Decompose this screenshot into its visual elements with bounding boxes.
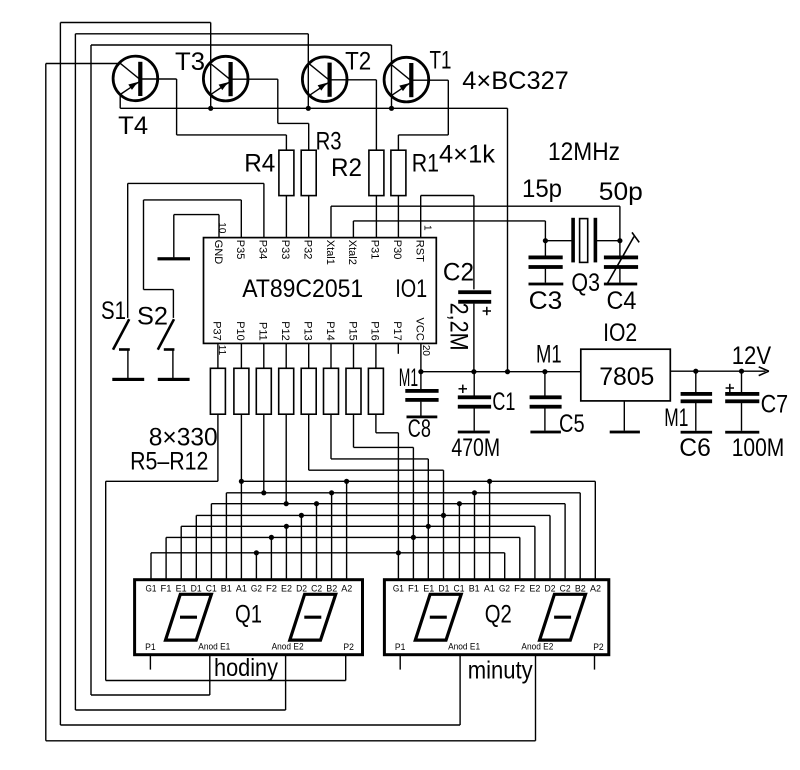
svg-text:11: 11	[216, 345, 227, 356]
svg-text:Q2: Q2	[485, 601, 512, 629]
svg-text:P2: P2	[343, 642, 354, 653]
svg-text:P1: P1	[395, 642, 406, 653]
svg-text:F1: F1	[408, 584, 419, 595]
svg-text:F2: F2	[514, 584, 525, 595]
svg-text:7805: 7805	[599, 363, 654, 391]
svg-text:T4: T4	[118, 112, 148, 140]
svg-text:4×1k: 4×1k	[439, 141, 495, 169]
svg-text:P32: P32	[302, 240, 314, 260]
svg-text:P31: P31	[369, 240, 381, 260]
svg-text:D2: D2	[296, 584, 307, 595]
svg-text:P1: P1	[145, 642, 156, 653]
svg-text:C2: C2	[311, 584, 322, 595]
svg-text:F2: F2	[266, 584, 277, 595]
svg-text:Anod E2: Anod E2	[272, 642, 304, 653]
svg-text:C7: C7	[761, 391, 789, 419]
svg-text:12MHz: 12MHz	[548, 138, 620, 166]
svg-text:P10: P10	[234, 321, 246, 341]
svg-text:M1: M1	[664, 404, 688, 432]
svg-text:P34: P34	[257, 240, 269, 260]
svg-text:P15: P15	[346, 321, 358, 341]
svg-text:P12: P12	[279, 321, 291, 341]
svg-text:hodiny: hodiny	[214, 654, 278, 682]
svg-text:E1: E1	[176, 584, 187, 595]
svg-text:Anod E1: Anod E1	[448, 642, 480, 653]
svg-text:T2: T2	[345, 48, 371, 76]
svg-text:P37: P37	[211, 321, 223, 341]
svg-text:Xtal2: Xtal2	[346, 240, 358, 265]
svg-text:C2: C2	[560, 584, 571, 595]
svg-text:R3: R3	[316, 127, 342, 155]
svg-text:F1: F1	[161, 584, 172, 595]
svg-text:S1: S1	[101, 297, 126, 325]
svg-text:50p: 50p	[599, 178, 643, 206]
svg-text:C8: C8	[408, 415, 431, 443]
svg-text:P14: P14	[324, 321, 336, 341]
svg-text:C5: C5	[559, 410, 585, 438]
svg-text:1: 1	[421, 225, 432, 231]
svg-text:R1: R1	[412, 149, 439, 177]
svg-text:20: 20	[420, 345, 431, 357]
svg-text:B2: B2	[575, 584, 586, 595]
svg-text:P13: P13	[302, 321, 314, 341]
svg-text:G2: G2	[251, 584, 262, 595]
svg-text:E2: E2	[529, 584, 540, 595]
svg-text:D2: D2	[545, 584, 556, 595]
svg-text:P30: P30	[391, 240, 403, 260]
svg-text:C1: C1	[492, 388, 515, 416]
svg-text:C2: C2	[443, 259, 474, 287]
svg-text:470M: 470M	[451, 434, 500, 462]
svg-text:Anod E1: Anod E1	[198, 642, 230, 653]
svg-text:G1: G1	[393, 584, 404, 595]
svg-text:T1: T1	[430, 47, 452, 75]
svg-text:RST: RST	[414, 240, 426, 262]
svg-text:C1: C1	[454, 584, 465, 595]
svg-text:minuty: minuty	[468, 657, 533, 685]
svg-text:S2: S2	[137, 303, 168, 331]
svg-text:G2: G2	[499, 584, 510, 595]
svg-text:C3: C3	[529, 287, 563, 315]
svg-text:P11: P11	[257, 322, 269, 341]
svg-text:E1: E1	[423, 584, 434, 595]
svg-text:R5–R12: R5–R12	[130, 448, 208, 476]
svg-text:100M: 100M	[732, 434, 785, 462]
svg-text:A2: A2	[590, 584, 601, 595]
svg-text:IO2: IO2	[603, 319, 637, 347]
svg-text:P16: P16	[369, 321, 381, 341]
svg-text:D1: D1	[191, 584, 202, 595]
svg-text:GND: GND	[212, 240, 224, 264]
svg-text:M1: M1	[399, 364, 418, 392]
svg-text:12V: 12V	[732, 342, 772, 370]
svg-text:P35: P35	[234, 240, 246, 260]
svg-text:B1: B1	[221, 584, 232, 595]
svg-text:B1: B1	[469, 584, 480, 595]
svg-text:Anod E2: Anod E2	[521, 642, 553, 653]
svg-text:C1: C1	[206, 584, 217, 595]
svg-text:C4: C4	[607, 287, 637, 315]
svg-text:Xtal1: Xtal1	[324, 240, 336, 265]
svg-text:C6: C6	[679, 434, 711, 462]
svg-text:D1: D1	[438, 584, 449, 595]
svg-text:IO1: IO1	[395, 275, 427, 303]
svg-text:G1: G1	[146, 584, 157, 595]
svg-text:P33: P33	[279, 240, 291, 260]
svg-text:15p: 15p	[522, 175, 562, 203]
svg-text:B2: B2	[326, 584, 337, 595]
svg-text:Q3: Q3	[571, 269, 600, 297]
svg-text:Q1: Q1	[235, 601, 262, 629]
svg-text:M1: M1	[536, 341, 562, 369]
svg-text:T3: T3	[175, 48, 205, 76]
svg-text:A1: A1	[236, 584, 247, 595]
svg-text:10: 10	[216, 222, 227, 234]
svg-text:P2: P2	[593, 642, 604, 653]
svg-text:R4: R4	[244, 149, 275, 177]
svg-text:A1: A1	[484, 584, 495, 595]
svg-text:A2: A2	[341, 584, 352, 595]
svg-text:E2: E2	[281, 584, 292, 595]
svg-text:R2: R2	[331, 154, 362, 182]
svg-text:P17: P17	[391, 321, 403, 341]
svg-text:AT89C2051: AT89C2051	[242, 275, 363, 303]
svg-text:VCC: VCC	[414, 318, 426, 341]
svg-text:2,2M: 2,2M	[445, 303, 473, 351]
svg-text:4×BC327: 4×BC327	[462, 67, 569, 95]
